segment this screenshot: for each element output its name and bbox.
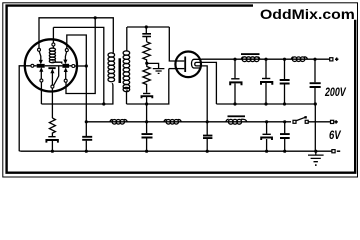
choke L3 (6V hash) [110, 120, 113, 122]
junction dot C11 bottom [283, 150, 286, 153]
junction dot common rail right end [314, 102, 317, 105]
vibrator V1 pin left [31, 64, 34, 67]
junction dot heater at 6V rail [206, 120, 209, 123]
resistor R1 [143, 42, 150, 62]
wire secondary bottom to common rail [126, 91, 128, 104]
wire common rail down to minus terminal [314, 104, 316, 151]
resistor R3 [49, 118, 55, 136]
wire heater lead 1 to common rail [202, 62, 217, 104]
transformer T1 core [119, 58, 122, 83]
vibrator V1 contact rectangle left [37, 64, 45, 68]
switch S1 lever [296, 117, 305, 120]
wire common rail left segment [127, 69, 169, 104]
vibrator V1 pin bottom-left [40, 79, 43, 82]
plus sign 6V [334, 120, 337, 123]
label 200V [325, 85, 346, 99]
B+ rail from cathode [202, 58, 330, 60]
transformer T1 primary winding [112, 53, 113, 85]
junction dot C6 top [313, 58, 316, 61]
junction dot R1/R2 [145, 62, 148, 65]
wire y27 down to plate top arm [169, 27, 176, 61]
outer border frame (thin) [3, 3, 358, 177]
wire secondary top to y27 [126, 27, 128, 51]
common rail (filter) [216, 103, 315, 105]
wire A: top-left pin to transformer primary top [39, 18, 113, 53]
capacitor C6 (filter) [314, 59, 316, 104]
junction dot C4 top [264, 58, 267, 61]
transformer T1 secondary winding [127, 51, 128, 91]
vibrator V1 contact bar [34, 65, 72, 67]
vibrator V1 pin top-left [38, 48, 41, 51]
200V terminal [330, 58, 333, 61]
wire from wire A dot down to bottom-right pin [66, 18, 95, 94]
junction dot C7 bottom [85, 150, 88, 153]
resistor R2 [143, 65, 150, 93]
capacitor C1 (buffer top) [145, 27, 147, 42]
minus sign 6V [337, 150, 340, 152]
inner border frame (thick) [7, 6, 357, 174]
tube U1 plate arm bottom [177, 68, 185, 70]
wire to ground G1 [147, 63, 159, 68]
6V rail [86, 121, 291, 123]
choke L2 (hash filter) [291, 57, 293, 59]
rectifier tube U1 envelope [175, 52, 201, 78]
junction dot C10 bottom [265, 150, 268, 153]
vibrator V1 pin top-right [65, 49, 68, 52]
switch S1 contact right [305, 120, 308, 123]
ground G1 [153, 69, 165, 74]
junction dot C11 top [283, 120, 286, 123]
wire to 6V minus terminal [316, 150, 332, 152]
bottom rail [20, 150, 316, 152]
junction dot contact rail [102, 102, 105, 105]
wire vibrator left lead to bottom rail [19, 66, 31, 151]
vibrator V1 pin bottom-middle [51, 85, 54, 88]
junction dot chain at 6V rail [145, 120, 148, 123]
6V plus terminal [331, 120, 334, 123]
capacitor C3 (filter, electrolytic) [234, 59, 236, 104]
junction dot C7 top [85, 120, 88, 123]
junction dot C8 bottom [145, 150, 148, 153]
capacitor C9 (6V bypass) [206, 122, 208, 151]
switch S1 contact left [293, 120, 296, 123]
vibrator V1 arrow up-right [65, 71, 67, 79]
capacitor C4 (filter, electrolytic) [265, 59, 267, 104]
junction dot wire A [94, 16, 97, 19]
wire vibrator right lead (node A) [75, 65, 87, 67]
wire bottom-left pin to contact rail [40, 82, 42, 104]
wire buffer chain to 6V rail [146, 104, 148, 122]
vibrator V1 contact rectangle right [62, 64, 69, 68]
vibrator V1 pin top-middle [52, 43, 55, 46]
junction dot C9 bottom [206, 150, 209, 153]
junction dot C3 top [233, 58, 236, 61]
choke L1 core bar [241, 53, 260, 55]
capacitor C7 (6V input bypass) [85, 122, 87, 151]
junction dot C5 top [283, 58, 286, 61]
tube U1 plate arm top [177, 60, 185, 62]
capacitor C12 (reed buffer, electrolytic) [48, 136, 55, 138]
junction dot C5 bottom [283, 102, 286, 105]
junction dot bottom rail right end [314, 150, 317, 153]
junction dot C3 bottom [233, 102, 236, 105]
wire B: top-middle pin to left rail [53, 27, 103, 104]
ground G2 [315, 151, 317, 155]
capacitor C11 (6V) [284, 122, 286, 151]
vibrator V1 arrow down-left [39, 51, 41, 60]
vibrator V1 envelope [25, 39, 77, 91]
node A junction dot [85, 64, 88, 67]
capacitor C10 (6V, electrolytic) [266, 122, 268, 151]
plus sign 200V [335, 58, 338, 61]
choke L5 (6V iron core) [226, 119, 229, 121]
capacitor C2 (buffer bottom, electrolytic) [143, 93, 150, 95]
wire switch to +6V terminal [308, 121, 330, 123]
wire heater lead 2 to 6V rail [202, 66, 208, 122]
wire contact rail (y=104 left segment) [41, 85, 113, 105]
vibrator V1 arrow down-right [65, 52, 66, 60]
6V minus terminal [332, 150, 335, 153]
tube U1 heater [195, 62, 202, 66]
choke L5 core bar [228, 115, 246, 117]
vibrator V1 arrow up-left [40, 71, 42, 79]
tube U1 cathode [192, 59, 202, 68]
vibrator V1 contact rectangle middle [48, 67, 55, 69]
choke L4 (6V hash) [164, 120, 167, 122]
tube U1 plate bar [184, 57, 186, 73]
vibrator V1 pin bottom-right [64, 79, 67, 82]
OddMix.com watermark [260, 8, 355, 23]
wire C: top-right pin down to 6V rail [67, 35, 87, 122]
choke L1 (iron core filter) [241, 57, 243, 59]
wire bottom-middle pin down to R3 [51, 88, 53, 118]
junction dot buffer chain at common rail [145, 102, 148, 105]
junction dot C10 top [265, 120, 268, 123]
vibrator V1 drive coil [52, 46, 54, 48]
wire common-rail-left up to plate bottom arm [169, 68, 177, 70]
vibrator V1 coil lead [52, 62, 61, 64]
capacitor C8 (6V bypass) [146, 122, 148, 151]
wire y27 (secondary top net) [127, 26, 169, 28]
vibrator V1 arrow up-middle [51, 73, 53, 85]
vibrator V1 reed arm [54, 66, 59, 85]
vibrator V1 pin right [72, 65, 75, 68]
junction dot C4 bottom [264, 102, 267, 105]
label 6V [329, 128, 341, 142]
junction dot y27 [145, 25, 148, 28]
capacitor C5 (filter) [284, 59, 286, 104]
junction dot C12 bottom [51, 150, 54, 153]
